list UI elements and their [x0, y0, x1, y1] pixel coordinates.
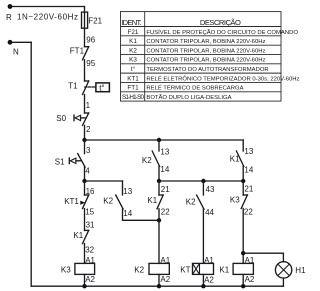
wire S0 to node 2: [84, 125, 86, 140]
node N terminal dot: [8, 40, 13, 45]
wire rail corner down to K1 contact: [242, 140, 244, 151]
KT1 arrow marker: [80, 201, 85, 205]
svg-text:FT1: FT1: [127, 85, 139, 92]
svg-text:32: 32: [85, 245, 94, 254]
wire K2 coil to bottom rail: [158, 274, 160, 286]
svg-text:22: 22: [244, 207, 253, 216]
wire K2 aux to branch2: [123, 209, 160, 220]
svg-text:R: R: [6, 13, 12, 22]
junction dot branch3/bottom rail: [201, 284, 205, 288]
node 4 junction dot: [82, 179, 86, 183]
pushbutton S0 (NC): [85, 112, 89, 114]
legend table frame: [121, 12, 282, 102]
lamp H1: [275, 262, 291, 278]
wire from R into fuse: [84, 7, 86, 47]
wire KT coil to bottom rail: [202, 274, 204, 286]
contact K1 (NC 21-22): [159, 194, 163, 196]
node 2 junction dot: [82, 138, 86, 142]
svg-text:K3: K3: [129, 57, 137, 64]
svg-text:K2: K2: [186, 198, 196, 207]
svg-text:2: 2: [86, 125, 91, 134]
wire 22 to coil K2: [158, 209, 160, 264]
wire connector to K1 contact: [158, 181, 160, 195]
dashed actuator link to t-box: [85, 86, 96, 88]
svg-text:14: 14: [123, 209, 132, 218]
wire 14 to connector: [158, 166, 160, 181]
svg-text:S0: S0: [56, 114, 66, 123]
fuse F21: [82, 12, 88, 28]
wire 15 to 31: [84, 209, 86, 231]
wire middle connector: [159, 180, 243, 182]
svg-text:K1: K1: [219, 266, 229, 275]
svg-text:S1: S1: [55, 157, 65, 166]
svg-text:A2: A2: [160, 275, 170, 284]
svg-text:K2: K2: [129, 47, 137, 54]
wire rail to K2 contact: [158, 140, 160, 151]
wire bottom N rail: [31, 285, 283, 287]
wire 32 to coil K3: [84, 244, 86, 264]
wire node4 to KT1: [84, 181, 86, 195]
svg-text:CONTATOR TRIPOLAR, BOBINA 220V: CONTATOR TRIPOLAR, BOBINA 220V-60Hz: [146, 58, 265, 64]
svg-text:t°: t°: [131, 65, 136, 73]
wire N vertical down left side: [30, 42, 32, 286]
wire R feeder horizontal: [10, 6, 85, 8]
svg-text:3: 3: [86, 146, 91, 155]
wire N feeder horizontal: [10, 41, 31, 43]
wire connector to K3 contact: [242, 181, 244, 195]
svg-text:N: N: [13, 48, 19, 57]
svg-text:4: 4: [85, 167, 90, 176]
contact K2 (NO 43-44): [197, 195, 204, 209]
svg-text:43: 43: [206, 185, 215, 194]
wire S1 to node 4: [84, 167, 86, 181]
svg-text:1: 1: [86, 101, 91, 110]
wire node4 to K2 aux branch: [85, 180, 123, 182]
svg-text:21: 21: [244, 185, 253, 194]
svg-text:95: 95: [86, 59, 95, 68]
svg-text:CONTATOR TRIPOLAR, BOBINA 220V: CONTATOR TRIPOLAR, BOBINA 220V-60Hz: [146, 48, 265, 54]
contact K2 (NO 13-14): [152, 151, 159, 166]
junction dot branch2/bottom rail: [157, 284, 161, 288]
svg-text:22: 22: [161, 208, 170, 217]
wire 14 to connector: [242, 166, 244, 181]
svg-text:RELÉ ELETRÔNICO TEMPORIZADOR 0: RELÉ ELETRÔNICO TEMPORIZADOR 0-30s, 220V…: [146, 75, 299, 82]
svg-text:1N~220V-60Hz: 1N~220V-60Hz: [17, 13, 78, 22]
contact K3 (NC 21-22): [243, 194, 247, 196]
svg-text:96: 96: [86, 36, 95, 45]
svg-text:KT1: KT1: [127, 75, 139, 82]
svg-text:K2: K2: [134, 266, 144, 275]
wire lamp to bottom rail: [282, 278, 284, 286]
junction dot branch1/bottom rail: [82, 284, 86, 288]
svg-text:KT1: KT1: [64, 197, 79, 206]
wire 22 down to coil K1: [242, 209, 244, 264]
svg-text:K2: K2: [103, 197, 113, 206]
timer coil KT: [193, 263, 214, 274]
node R terminal dot: [8, 4, 13, 9]
svg-text:KT: KT: [180, 266, 190, 275]
overload relay contact FT1 (NC 95-96): [85, 46, 89, 48]
wire 44 to coil KT: [202, 209, 204, 263]
svg-text:S1-H1-S0: S1-H1-S0: [122, 94, 144, 101]
svg-text:14: 14: [160, 165, 169, 174]
svg-text:K1: K1: [147, 196, 157, 205]
svg-text:K3: K3: [230, 196, 240, 205]
contact K1 (NC 31-32): [85, 229, 89, 231]
wire T1 to S0: [84, 95, 86, 114]
junction dot rail/branch2: [157, 138, 161, 142]
wire 95 to T1: [84, 60, 86, 81]
junction dot connector/branch4: [241, 179, 245, 183]
svg-text:RELÉ TÉRMICO DE SOBRECARGA: RELÉ TÉRMICO DE SOBRECARGA: [146, 85, 243, 92]
svg-text:31: 31: [86, 221, 95, 230]
svg-text:K2: K2: [142, 156, 152, 165]
svg-text:K3: K3: [61, 266, 71, 275]
coil K3: [75, 263, 95, 274]
svg-text:F21: F21: [128, 29, 139, 36]
svg-text:15: 15: [85, 208, 94, 217]
svg-text:T1: T1: [68, 82, 78, 91]
svg-text:A2: A2: [85, 275, 95, 284]
junction dot lamp tap: [241, 251, 245, 255]
timer contact KT1 (NC 15-16): [85, 194, 89, 196]
svg-text:CONTATOR TRIPOLAR, BOBINA 220V: CONTATOR TRIPOLAR, BOBINA 220V-60Hz: [146, 39, 265, 45]
svg-text:K1: K1: [129, 38, 137, 45]
coil K1: [233, 263, 253, 274]
svg-text:FUSÍVEL DE PROTEÇÃO DO CIRCUIT: FUSÍVEL DE PROTEÇÃO DO CIRCUITO DE COMAN…: [146, 29, 298, 36]
wire connector to K2 43 contact: [202, 181, 204, 195]
svg-text:DESCRIÇÃO: DESCRIÇÃO: [200, 18, 241, 27]
svg-text:13: 13: [244, 147, 253, 156]
thermostat bulb box t°: [96, 83, 110, 92]
svg-text:13: 13: [123, 187, 132, 196]
svg-text:IDENT.: IDENT.: [121, 18, 142, 27]
junction dot connector/branch3: [201, 179, 205, 183]
svg-text:TERMOSTATO DO AUTOTRANSFORMADO: TERMOSTATO DO AUTOTRANSFORMADOR: [146, 67, 268, 73]
svg-text:FT1: FT1: [70, 47, 85, 56]
junction dot branch4/bottom rail: [241, 284, 245, 288]
svg-text:K1: K1: [230, 155, 240, 164]
wire node4-branch down: [122, 181, 124, 195]
wire K3 coil to bottom rail: [84, 274, 86, 286]
svg-text:A2: A2: [204, 275, 214, 284]
contact K1 (NO 13-14): [236, 151, 243, 166]
junction dot at branch2: [157, 218, 161, 222]
svg-text:H1: H1: [295, 266, 306, 275]
junction dot connector/branch2: [157, 179, 161, 183]
svg-text:BOTÃO DUPLO LIGA-DESLIGA: BOTÃO DUPLO LIGA-DESLIGA: [146, 94, 231, 101]
svg-text:14: 14: [244, 165, 253, 174]
svg-text:t°: t°: [99, 83, 104, 92]
svg-text:21: 21: [161, 185, 170, 194]
pushbutton S1 (NO 3-4): [78, 154, 85, 168]
thermostat contact T1 (NC): [85, 80, 89, 82]
wire K1 coil to bottom rail: [242, 274, 244, 286]
svg-text:13: 13: [160, 147, 169, 156]
coil K2: [149, 263, 169, 274]
wire lamp tap horizontal: [243, 253, 283, 262]
contact K2 (NO 13-14, seal-in): [116, 195, 123, 209]
svg-text:F21: F21: [88, 16, 102, 25]
svg-text:A2: A2: [245, 275, 255, 284]
wire node2 to S1: [84, 140, 86, 154]
wire top rail: [85, 139, 244, 141]
svg-text:K1: K1: [73, 231, 83, 240]
svg-text:44: 44: [205, 208, 214, 217]
